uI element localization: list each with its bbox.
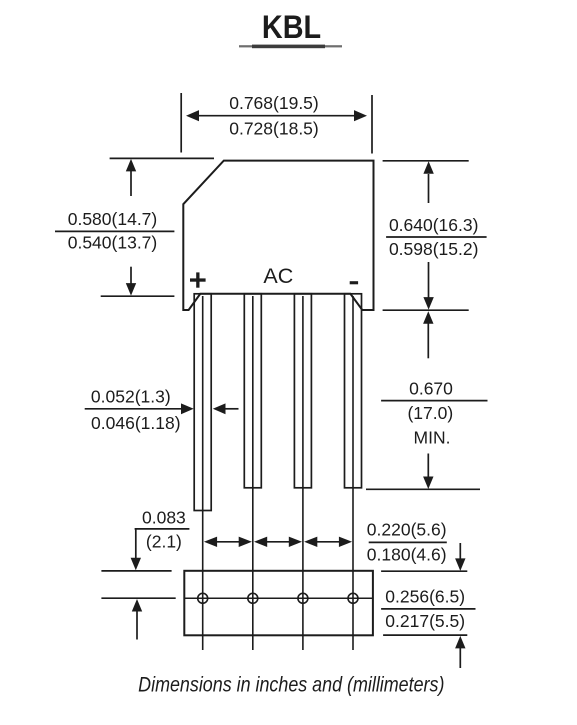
- dimension 0.640/0.598 top extension line: [383, 160, 469, 162]
- pitch span 3 arrow: [312, 541, 344, 543]
- svg-text:MIN.: MIN.: [414, 428, 451, 448]
- fraction line: [55, 230, 174, 232]
- plus mark: [190, 272, 206, 287]
- lead 3 outline: [294, 294, 311, 488]
- dimension 0.670 up arrow: [423, 311, 433, 324]
- up arrow below: [132, 599, 142, 612]
- fraction line: [369, 541, 447, 543]
- minus mark: [350, 281, 358, 284]
- fraction line: [135, 528, 190, 530]
- lead 1 outline: [194, 294, 211, 511]
- up arrow: [455, 636, 465, 649]
- svg-text:0.540(13.7): 0.540(13.7): [68, 233, 158, 253]
- svg-text:0.220(5.6): 0.220(5.6): [367, 520, 447, 540]
- svg-text:(17.0): (17.0): [407, 403, 453, 423]
- bottom view board outline: [184, 571, 373, 636]
- bottom extension line: [101, 295, 175, 297]
- lead 2 centerline: [252, 296, 254, 650]
- bottom extension line: [366, 488, 480, 490]
- arrowhead to lead left edge: [181, 403, 194, 414]
- fraction line: [386, 236, 487, 238]
- svg-text:0.217(5.5): 0.217(5.5): [385, 611, 465, 631]
- extension line bottom: [383, 634, 467, 636]
- dimension 0.052/0.046 leader line: [85, 408, 187, 410]
- down arrow: [427, 454, 429, 479]
- svg-text:0.046(1.18): 0.046(1.18): [91, 413, 181, 433]
- bottom extension line: [383, 309, 469, 311]
- lead 4 outline: [345, 294, 362, 488]
- pitch span 1 arrow: [212, 541, 244, 543]
- hole 2: [248, 593, 258, 603]
- svg-text:0.256(6.5): 0.256(6.5): [385, 587, 465, 607]
- up arrow: [126, 159, 136, 172]
- svg-text:0.083: 0.083: [142, 507, 186, 527]
- fraction line: [381, 608, 475, 610]
- leader with down arrow: [135, 529, 137, 559]
- hole 3: [298, 593, 308, 603]
- title underline: [239, 45, 342, 49]
- down arrow: [130, 267, 132, 284]
- dimension 0.768/0.728 extension line right: [371, 95, 373, 154]
- svg-text:KBL: KBL: [262, 10, 321, 46]
- svg-text:0.580(14.7): 0.580(14.7): [68, 209, 158, 229]
- arrowhead left: [186, 110, 199, 121]
- lead pitch arrows row: [204, 537, 352, 547]
- svg-text:0.768(19.5): 0.768(19.5): [229, 93, 319, 113]
- dimension 0.580/0.540 top extension line: [110, 157, 214, 159]
- hole centerline: [184, 597, 373, 599]
- fraction line: [381, 400, 487, 402]
- arrow tail: [225, 408, 239, 410]
- svg-text:0.598(15.2): 0.598(15.2): [389, 239, 479, 259]
- dimension 0.768/0.728 dimension line: [197, 115, 356, 117]
- svg-text:Dimensions in inches and (mill: Dimensions in inches and (millimeters): [138, 673, 444, 697]
- svg-text:(2.1): (2.1): [146, 531, 182, 551]
- svg-text:0.180(4.6): 0.180(4.6): [367, 544, 447, 564]
- down arrow: [459, 543, 461, 560]
- down arrow: [428, 262, 430, 298]
- lead 4 centerline: [352, 296, 354, 650]
- lead 2 outline: [244, 294, 261, 488]
- extension line top: [101, 570, 171, 572]
- up arrow: [423, 161, 433, 174]
- svg-text:0.052(1.3): 0.052(1.3): [91, 386, 171, 406]
- pitch span 2 arrow: [262, 541, 294, 543]
- arrowhead to lead right edge: [213, 403, 226, 414]
- hole 4: [348, 593, 358, 603]
- dimension 0.768/0.728 extension line left: [180, 93, 182, 153]
- body outline: [183, 161, 373, 310]
- arrowhead right: [354, 110, 367, 121]
- svg-text:0.670: 0.670: [409, 378, 453, 398]
- svg-text:0.728(18.5): 0.728(18.5): [229, 118, 319, 138]
- hole 1: [198, 593, 208, 603]
- lead 3 centerline: [302, 296, 304, 650]
- svg-text:0.640(16.3): 0.640(16.3): [389, 215, 479, 235]
- extension line centerline level: [101, 597, 175, 599]
- extension line: [381, 570, 467, 572]
- lead 1 centerline: [202, 296, 204, 650]
- svg-text:AC: AC: [263, 264, 293, 288]
